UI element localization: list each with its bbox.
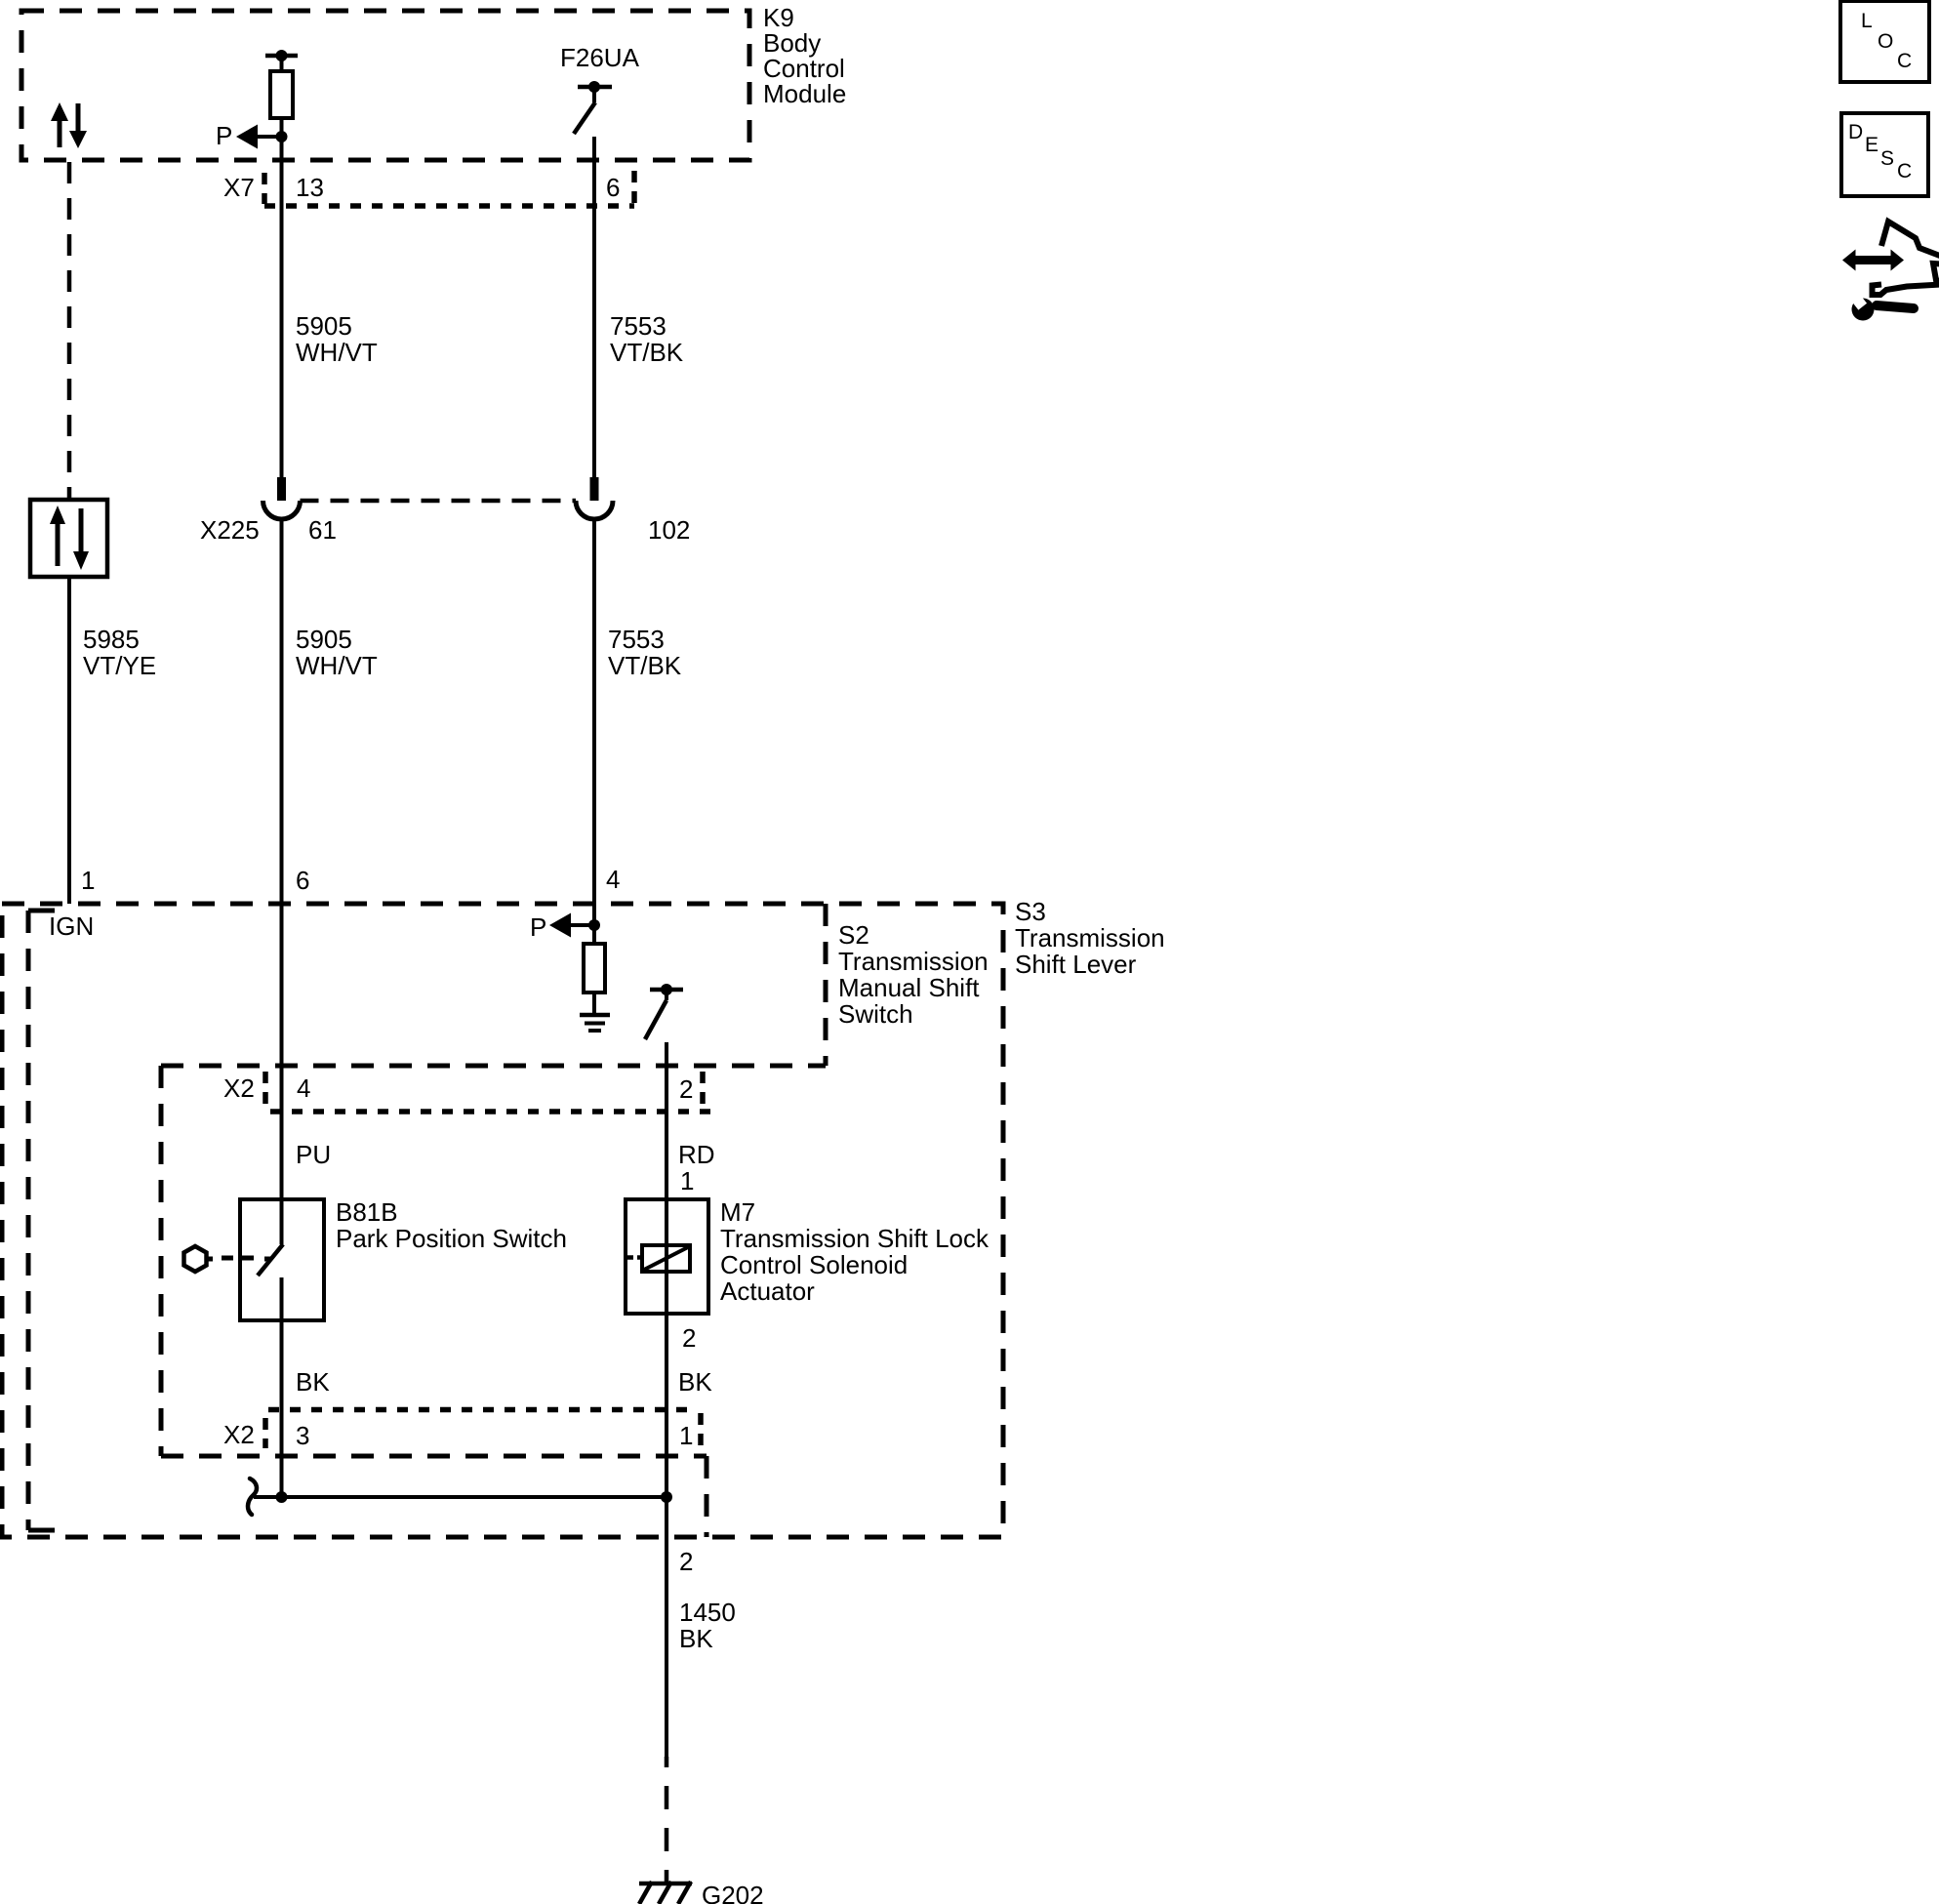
B81B label	[336, 1197, 567, 1253]
K9 Body Control Module dashed box	[21, 11, 749, 160]
svg-text:2: 2	[679, 1074, 693, 1104]
node: resistor top bar	[265, 54, 298, 59]
svg-text:VT/BK: VT/BK	[608, 651, 682, 680]
junction node left	[276, 1491, 288, 1503]
svg-text:4: 4	[297, 1074, 310, 1103]
S2 inner left dashed edge	[28, 911, 55, 1530]
X7 dotted interface line	[264, 203, 634, 209]
M7 label	[720, 1197, 990, 1306]
svg-text:5905: 5905	[296, 311, 352, 341]
G202 chassis ground symbol	[639, 1882, 692, 1904]
wire: symbol box to S3 pin 1	[67, 577, 71, 904]
wire label 5985 VT/YE	[83, 625, 156, 680]
wire stub to resistor	[280, 56, 284, 71]
X225 connector pin 102 (thick pin + cup)	[576, 477, 613, 519]
svg-text:F26UA: F26UA	[560, 43, 640, 72]
resistor (pull-down)	[584, 944, 605, 993]
svg-text:Module: Module	[763, 79, 846, 108]
svg-text:P: P	[216, 121, 232, 150]
X2 top dotted interface line	[270, 1109, 713, 1114]
B81B Park Position Switch box	[240, 1199, 324, 1320]
S2 label	[838, 920, 989, 1029]
LOC icon box	[1840, 1, 1929, 82]
mechanical link dashes	[222, 1258, 271, 1259]
junction node right	[661, 1491, 672, 1503]
vehicle service icon: wrench	[1848, 290, 1914, 320]
svg-text:Switch: Switch	[838, 999, 913, 1029]
junction wire horizontal	[254, 1495, 667, 1499]
svg-text:VT/BK: VT/BK	[610, 338, 684, 367]
svg-text:Shift Lever: Shift Lever	[1015, 950, 1137, 979]
DESC icon box	[1841, 113, 1928, 196]
svg-text:Park Position Switch: Park Position Switch	[336, 1224, 567, 1253]
wire label 7553 VT/BK upper	[610, 311, 684, 367]
B81B switch blade	[258, 1244, 283, 1276]
svg-text:M7: M7	[720, 1197, 755, 1227]
dashed wire from K9 to power symbol	[67, 162, 72, 500]
svg-text:B81B: B81B	[336, 1197, 398, 1227]
svg-text:61: 61	[308, 515, 337, 545]
X2 top connector left bracket	[263, 1072, 268, 1106]
svg-text:E: E	[1865, 134, 1878, 156]
S2 manual shift switch: top bar	[650, 988, 683, 993]
P signal arrow	[216, 121, 282, 150]
F26UA switch top bar	[578, 85, 612, 90]
svg-text:7553: 7553	[610, 311, 667, 341]
svg-text:6: 6	[296, 866, 309, 895]
svg-text:102: 102	[648, 515, 690, 545]
hexagon mechanical link	[184, 1246, 214, 1272]
S2 switch blade	[645, 1000, 667, 1039]
svg-text:G202: G202	[702, 1881, 764, 1904]
wire: X225-61 down to S3 pin 6	[280, 519, 284, 1244]
assembly dashed box bottom edge	[161, 1454, 707, 1459]
X7 connector left bracket	[262, 173, 267, 204]
power flow symbol box (up/down arrows)	[30, 500, 107, 577]
M7 solenoid link dashes	[627, 1255, 642, 1260]
wire: B81B lower contact down to junction	[280, 1277, 284, 1497]
wire label 5905 WH/VT upper	[296, 311, 378, 367]
svg-text:S3: S3	[1015, 897, 1046, 926]
svg-text:5905: 5905	[296, 625, 352, 654]
vehicle service icon: double arrow	[1842, 250, 1904, 271]
svg-text:2: 2	[679, 1547, 693, 1576]
svg-text:Manual Shift: Manual Shift	[838, 973, 980, 1002]
svg-text:1: 1	[680, 1166, 694, 1195]
svg-text:Transmission Shift Lock: Transmission Shift Lock	[720, 1224, 990, 1253]
K9 label	[763, 3, 846, 108]
X2 bottom connector right bracket	[698, 1413, 704, 1451]
P signal arrow (shift lock)	[530, 912, 594, 942]
wire: F26UA to X225 pin	[592, 137, 596, 477]
M7 Transmission Shift Lock Control Solenoid Actuator box	[626, 1199, 708, 1314]
wire: S2 switch to M7	[665, 1042, 668, 1497]
svg-text:C: C	[1897, 50, 1912, 72]
wire label 7553 VT/BK lower	[608, 625, 682, 680]
wire: X225-102 down to S3 pin 4 and resistor	[592, 519, 596, 944]
svg-text:3: 3	[296, 1421, 309, 1450]
X225 connector pin 61 (thick pin + cup)	[263, 477, 301, 519]
bidirectional signal arrows inside K9	[51, 102, 87, 148]
svg-text:BK: BK	[296, 1367, 330, 1397]
S3 label	[1015, 897, 1165, 979]
X2 bottom dotted interface line	[268, 1407, 695, 1413]
svg-text:4: 4	[606, 865, 620, 894]
svg-text:X225: X225	[200, 515, 260, 545]
F26UA switch stub	[592, 87, 596, 102]
svg-text:X7: X7	[223, 173, 255, 202]
svg-text:BK: BK	[678, 1367, 712, 1397]
wire: resistor to ground	[592, 993, 596, 1015]
svg-text:D: D	[1848, 121, 1863, 143]
svg-text:6: 6	[606, 173, 620, 202]
S2 switch stub	[665, 990, 668, 1000]
svg-text:WH/VT: WH/VT	[296, 338, 378, 367]
svg-text:Transmission: Transmission	[838, 947, 989, 976]
svg-text:1: 1	[81, 866, 95, 895]
svg-text:Control Solenoid: Control Solenoid	[720, 1250, 908, 1279]
M7 solenoid symbol	[642, 1245, 690, 1272]
node P junction (shift lock)	[588, 919, 600, 931]
assembly dashed box right stub	[705, 1456, 709, 1537]
svg-text:X2: X2	[223, 1420, 255, 1449]
svg-text:VT/YE: VT/YE	[83, 651, 156, 680]
svg-text:O: O	[1878, 30, 1893, 53]
wire: junction down to ground	[665, 1497, 668, 1757]
svg-text:S2: S2	[838, 920, 869, 950]
svg-text:C: C	[1897, 160, 1912, 182]
svg-text:P: P	[530, 912, 546, 942]
wire label 5905 WH/VT lower	[296, 625, 378, 680]
node P junction	[276, 131, 288, 142]
svg-text:WH/VT: WH/VT	[296, 651, 378, 680]
S3 Transmission Shift Lever dashed box	[2, 904, 1003, 1537]
assembly dashed box left edge	[159, 1066, 164, 1456]
S2 right dashed edge	[824, 904, 828, 1066]
X2 bottom connector left bracket	[263, 1418, 268, 1448]
svg-text:13: 13	[296, 173, 324, 202]
svg-text:1: 1	[679, 1421, 693, 1450]
svg-text:7553: 7553	[608, 625, 665, 654]
svg-text:L: L	[1861, 10, 1873, 32]
svg-text:Transmission: Transmission	[1015, 923, 1165, 952]
F26UA switch blade	[574, 102, 595, 134]
wire: resistor to X225 pin	[280, 118, 284, 477]
S2 bottom dashed edge	[161, 1064, 826, 1069]
svg-text:5985: 5985	[83, 625, 140, 654]
svg-text:1450: 1450	[679, 1598, 736, 1627]
X7 connector right bracket	[631, 171, 637, 205]
svg-text:Actuator: Actuator	[720, 1276, 815, 1306]
svg-text:S: S	[1880, 147, 1894, 170]
svg-text:X2: X2	[223, 1074, 255, 1103]
svg-text:2: 2	[682, 1323, 696, 1353]
resistor (pull-up inside K9)	[270, 71, 293, 118]
splice hook	[248, 1479, 257, 1515]
ground symbol (internal)	[580, 1015, 610, 1031]
X2 top connector right bracket	[700, 1072, 706, 1113]
svg-text:RD: RD	[678, 1140, 715, 1169]
X225 dashed interface line	[301, 499, 577, 504]
wire label 1450 BK	[679, 1598, 736, 1653]
vehicle service icon: car outline	[1873, 222, 1939, 295]
svg-text:PU: PU	[296, 1140, 331, 1169]
svg-text:IGN: IGN	[49, 911, 94, 941]
dashed wire to G202	[665, 1757, 669, 1882]
svg-text:BK: BK	[679, 1624, 713, 1653]
